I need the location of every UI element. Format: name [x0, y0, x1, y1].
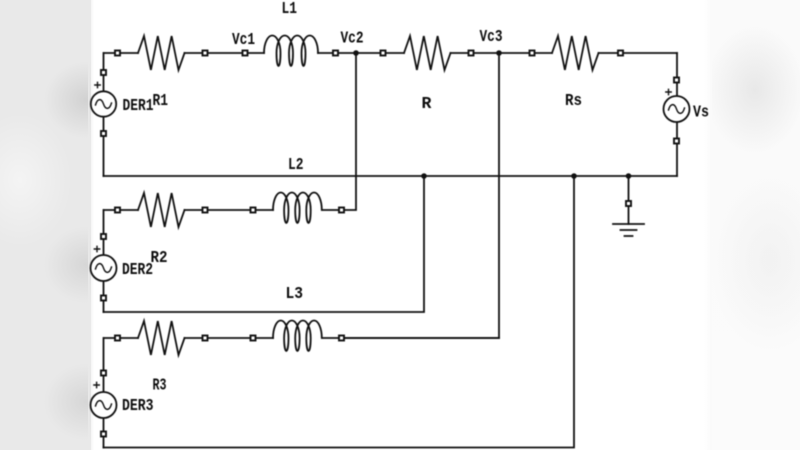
label L2: [288, 155, 304, 174]
pin terminal DER1 bottom: [101, 131, 106, 136]
pin terminal row3 a: [115, 336, 120, 341]
label Vc1: [232, 30, 255, 49]
pin terminal DER3 top: [101, 371, 106, 376]
junction dot bus1 x424: [421, 173, 427, 179]
label R1: [153, 91, 169, 110]
label R3: [153, 376, 167, 395]
wire row2 bottom rail: [104, 176, 425, 312]
svg-text:Vc3: Vc3: [480, 27, 503, 46]
label L3: [286, 284, 304, 303]
junction dot ground tap: [626, 173, 632, 179]
pin terminal row3 c: [251, 336, 256, 341]
node Vc2 junction dot: [353, 50, 359, 56]
wire bus1 bottom rail row1: [104, 175, 678, 177]
svg-text:R: R: [422, 94, 432, 113]
wire row2 rail: [104, 209, 344, 211]
pin terminal row3 d: [339, 336, 344, 341]
pin terminal row1 e: [381, 51, 386, 56]
svg-text:Vc2: Vc2: [341, 29, 364, 48]
resistor R3: [138, 321, 184, 355]
pin terminal DER2 bottom: [101, 296, 106, 301]
label L1: [282, 0, 298, 18]
svg-text:Vc1: Vc1: [232, 30, 255, 49]
resistor R1: [138, 36, 184, 70]
resistor R2: [138, 193, 184, 227]
pin terminal row2 d: [339, 208, 344, 213]
svg-text:Vs: Vs: [693, 103, 709, 122]
pin terminal row1 a: [115, 51, 120, 56]
voltage source DER1: [91, 82, 116, 116]
inductor L3: [273, 321, 322, 352]
pin terminal ground: [626, 201, 631, 206]
resistor R: [404, 36, 450, 70]
pin terminal row1 f: [469, 51, 474, 56]
inductor L2: [273, 193, 322, 224]
wire node Vc2 vertical to row2: [344, 53, 356, 210]
wire row3 bottom rail: [104, 176, 575, 448]
svg-text:R1: R1: [153, 91, 169, 110]
node Vc3 junction dot: [496, 50, 502, 56]
junction dot bus1 x574: [571, 173, 577, 179]
voltage source DER3: [91, 382, 117, 418]
pin terminal row3 b: [203, 336, 208, 341]
label Vc3: [480, 27, 503, 46]
svg-text:L1: L1: [282, 0, 298, 18]
svg-text:R2: R2: [151, 248, 168, 267]
pin terminal row2 a: [115, 208, 120, 213]
svg-text:DER2: DER2: [122, 260, 153, 279]
wire Vs right vertical: [676, 53, 678, 176]
wire DER3 left vertical: [103, 338, 105, 448]
pin terminal row1 g: [530, 51, 535, 56]
svg-text:L2: L2: [288, 155, 304, 174]
resistor Rs: [552, 36, 599, 70]
wire row3 rail: [104, 337, 499, 339]
wire node Vc3 vertical to row3: [344, 53, 499, 338]
wire DER2 left vertical: [103, 210, 105, 312]
label DER3: [122, 396, 154, 415]
pin terminal row1 h: [618, 51, 623, 56]
wire DER1 left vertical: [103, 53, 105, 176]
pin terminal DER3 bottom: [101, 432, 106, 437]
pin terminal row1 b: [203, 51, 208, 56]
pin terminal row1 d: [333, 51, 338, 56]
ground: [613, 224, 644, 236]
label R2: [151, 248, 168, 267]
svg-text:DER1: DER1: [123, 96, 154, 115]
svg-text:Rs: Rs: [565, 91, 582, 110]
pin terminal DER1 top: [101, 70, 106, 75]
wire row1 top rail: [104, 52, 677, 54]
label Vc2: [341, 29, 364, 48]
svg-text:R3: R3: [153, 376, 167, 395]
pin terminal row2 c: [251, 208, 256, 213]
label Vs: [693, 103, 709, 122]
voltage source DER2: [91, 246, 117, 281]
pin terminal row1 c: [243, 51, 248, 56]
inductor L1: [264, 36, 318, 67]
label Rs: [565, 91, 582, 110]
label R: [422, 94, 432, 113]
svg-text:DER3: DER3: [122, 396, 154, 415]
pin terminal Vs top: [674, 78, 679, 83]
label DER2: [122, 260, 153, 279]
label DER1: [123, 96, 154, 115]
svg-text:L3: L3: [286, 284, 304, 303]
voltage source Vs: [664, 89, 690, 122]
pin terminal DER2 top: [101, 234, 106, 239]
pin terminal row2 b: [203, 208, 208, 213]
wire ground stem: [628, 176, 630, 224]
pin terminal Vs bottom: [674, 139, 679, 144]
